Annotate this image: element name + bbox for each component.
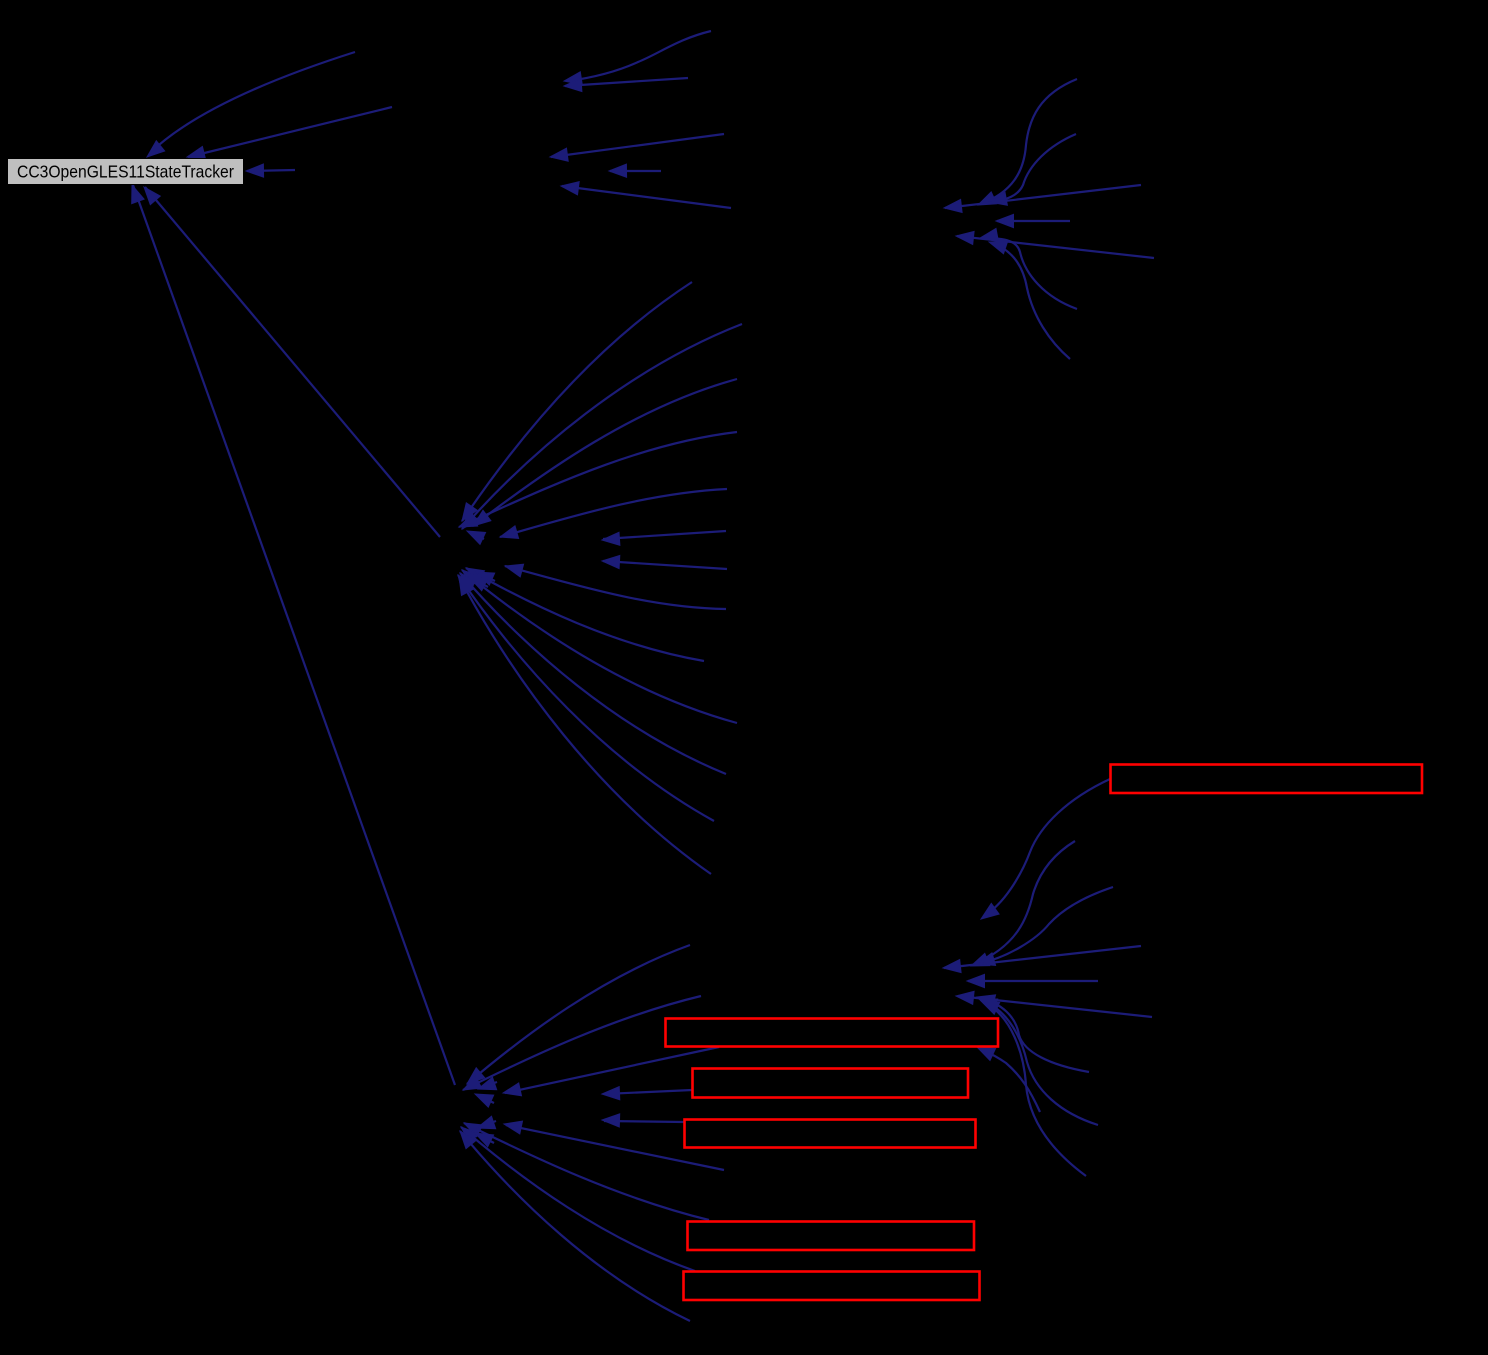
edge g2 bbox=[187, 107, 392, 159]
edge fh bbox=[979, 999, 1098, 1125]
edge fa bbox=[971, 841, 1075, 966]
edge c5 bbox=[956, 231, 1154, 258]
edge g3 bbox=[246, 164, 295, 177]
edge fA bbox=[981, 779, 1110, 919]
edge g5 bbox=[132, 185, 455, 1085]
edge fc bbox=[943, 946, 1141, 973]
head p6 bbox=[475, 1094, 494, 1107]
head p4 bbox=[469, 577, 488, 591]
red node D bbox=[685, 1120, 976, 1148]
edge b2 bbox=[564, 78, 688, 92]
edge c3 bbox=[944, 185, 1141, 213]
edge d3 bbox=[473, 379, 737, 526]
edge g1 bbox=[147, 52, 355, 157]
edge d4 bbox=[459, 432, 737, 527]
red node E bbox=[688, 1222, 975, 1251]
edge d12 bbox=[458, 575, 714, 821]
head p5 bbox=[478, 1077, 497, 1090]
edge d1 bbox=[462, 282, 692, 521]
edge d7 bbox=[602, 555, 727, 569]
edge fd bbox=[967, 974, 1098, 987]
red node C bbox=[693, 1069, 969, 1098]
edge c2 bbox=[989, 134, 1076, 205]
edge c7 bbox=[989, 241, 1070, 359]
edge b5 bbox=[561, 182, 731, 208]
edge d5 bbox=[500, 489, 727, 539]
edge ed bbox=[460, 1131, 690, 1321]
edge fi bbox=[981, 1001, 1086, 1176]
edge c6 bbox=[980, 228, 1077, 309]
edge d13 bbox=[459, 577, 711, 874]
edge ec bbox=[461, 1127, 695, 1271]
head p3 bbox=[476, 572, 495, 585]
edge d9 bbox=[466, 568, 704, 661]
edge b1 bbox=[564, 31, 711, 85]
red node B bbox=[666, 1019, 999, 1047]
edge fe bbox=[956, 991, 1152, 1017]
edge g4 bbox=[144, 187, 440, 537]
edge ea bbox=[504, 1121, 724, 1170]
edge fb bbox=[977, 887, 1113, 965]
node CC3OpenGLES11StateTracker bbox=[8, 159, 244, 185]
red node A bbox=[1111, 765, 1423, 794]
edge s1 bbox=[467, 945, 690, 1084]
edge b3 bbox=[550, 134, 724, 161]
edge s2 bbox=[463, 996, 701, 1090]
svg-text:CC3OpenGLES11StateTracker: CC3OpenGLES11StateTracker bbox=[17, 162, 234, 182]
head p1 bbox=[467, 531, 486, 544]
edge s4 bbox=[602, 1087, 692, 1100]
edge d11 bbox=[460, 573, 726, 774]
edge d2 bbox=[462, 324, 742, 529]
edge d6 bbox=[602, 531, 726, 545]
edge c4 bbox=[996, 214, 1070, 227]
red node F bbox=[684, 1272, 980, 1301]
edge d10 bbox=[462, 570, 737, 723]
edge c1 bbox=[978, 79, 1077, 205]
edge b4 bbox=[609, 164, 661, 177]
head p8 bbox=[475, 1133, 494, 1147]
edge d8 bbox=[505, 564, 726, 609]
edge e0 bbox=[602, 1114, 684, 1127]
edge fg bbox=[977, 995, 1089, 1072]
edge s3 bbox=[503, 1047, 719, 1096]
edge fB bbox=[977, 1047, 1040, 1112]
head p7 bbox=[477, 1116, 496, 1129]
edge eb bbox=[464, 1123, 709, 1220]
